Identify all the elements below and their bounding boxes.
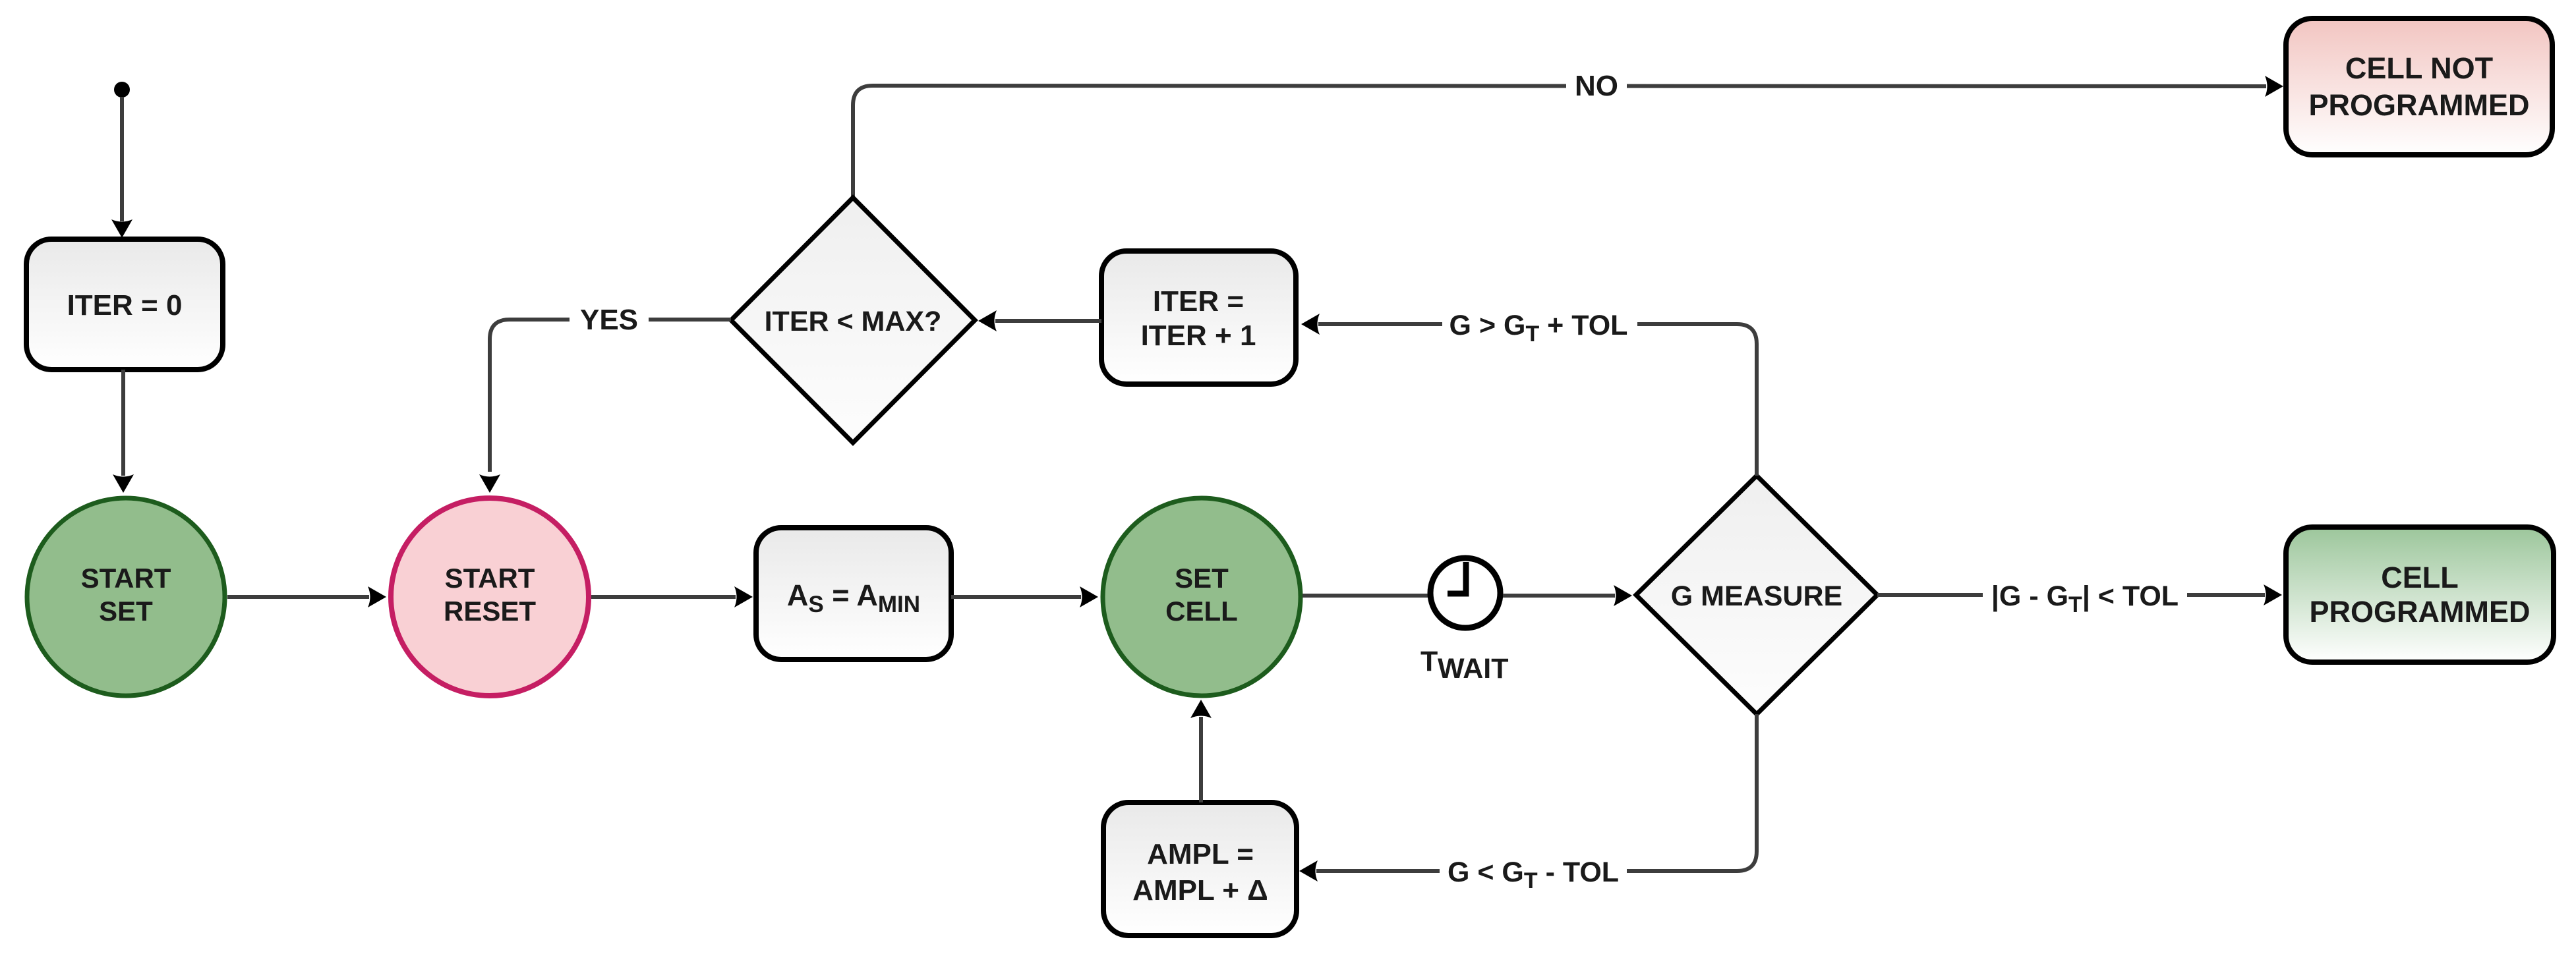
svg-text:START: START [445, 563, 535, 594]
svg-text:RESET: RESET [444, 596, 536, 627]
wire ITER0 to START SET [113, 370, 134, 493]
svg-text:ITER + 1: ITER + 1 [1141, 320, 1256, 352]
svg-text:ITER < MAX?: ITER < MAX? [765, 306, 942, 337]
node START RESET circle [391, 498, 589, 696]
wire G < GT - TOL: G MEASURE bottom to AMPL box [1299, 714, 1757, 882]
label |G - GT| < TOL [1983, 579, 2187, 612]
wire START RESET to AS box [591, 586, 753, 607]
wire YES: ITER<MAX? left to START RESET [479, 320, 731, 493]
wire NO: ITER<MAX? top to CELL NOT PROGRAMMED [853, 76, 2283, 199]
label NO [1566, 70, 1627, 101]
svg-text:T: T [1420, 646, 1438, 677]
wire clock to G MEASURE [1503, 585, 1632, 606]
node CELL NOT PROGRAMMED box [2286, 18, 2552, 155]
label YES [570, 304, 649, 335]
node start-dot [114, 82, 130, 98]
svg-text:|G - GT| < TOL: |G - GT| < TOL [1991, 580, 2179, 617]
svg-text:AMPL =: AMPL = [1147, 838, 1254, 870]
clock symbol [1420, 558, 1508, 685]
node ITER = ITER + 1 box [1101, 251, 1296, 384]
svg-text:SET: SET [1175, 563, 1229, 594]
node ITER0 box [26, 239, 223, 370]
wire G MEASURE to CELL PROGRAMMED with label [1877, 584, 2282, 605]
node AMPL box [1103, 802, 1297, 936]
svg-text:CELL: CELL [2381, 561, 2459, 594]
svg-text:AMPL + Δ: AMPL + Δ [1132, 874, 1268, 907]
svg-text:CELL: CELL [1165, 596, 1238, 627]
node ITER<MAX? diamond [731, 198, 975, 443]
node AS box [756, 528, 951, 659]
wire G > GT + TOL: G MEASURE top to ITER+1 box [1301, 314, 1757, 476]
node G MEASURE diamond [1636, 476, 1877, 714]
svg-text:WAIT: WAIT [1438, 653, 1508, 685]
node SET CELL circle [1103, 498, 1301, 696]
svg-text:CELL NOT: CELL NOT [2345, 51, 2493, 85]
svg-text:PROGRAMMED: PROGRAMMED [2309, 88, 2530, 122]
wire AS box to SET CELL [951, 586, 1098, 607]
node START SET circle [27, 498, 225, 696]
svg-text:START: START [81, 563, 171, 594]
wire AMPL box to SET CELL [1190, 700, 1212, 802]
svg-text:NO: NO [1575, 70, 1618, 102]
node CELL PROGRAMMED box [2286, 527, 2554, 662]
wire ITER+1 box to ITER<MAX? [978, 310, 1101, 331]
svg-text:ITER =: ITER = [1153, 285, 1244, 318]
wire START SET to START RESET [227, 586, 386, 607]
wire SET CELL to clock [1303, 594, 1428, 598]
svg-text:YES: YES [580, 304, 638, 336]
label G > GT + TOL [1442, 308, 1637, 341]
wire start-dot to ITER0 [111, 97, 132, 238]
svg-text:SET: SET [99, 596, 153, 627]
svg-text:G MEASURE: G MEASURE [1671, 580, 1842, 612]
svg-text:PROGRAMMED: PROGRAMMED [2310, 595, 2531, 629]
svg-text:ITER = 0: ITER = 0 [67, 289, 183, 322]
label G < GT - TOL [1440, 855, 1627, 887]
